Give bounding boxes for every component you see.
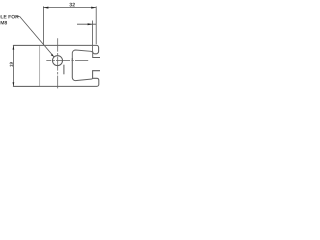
horizontal center line of hole [46,60,88,62]
arrowhead 32 right [91,7,96,9]
hook lip inner vertical x=92.7 down to off-edge line [93,52,100,58]
leader diagonal to hole [20,17,54,57]
text HOLE FOR (cut at left edge) [0,15,19,19]
extension line bottom [13,85,40,87]
arrowhead small dim right [88,23,93,25]
top edge and top-right hook [13,45,98,53]
text 19 rotated [10,62,13,67]
dim line 19 [12,45,14,86]
small dim line at y24 [77,23,96,25]
part outline: plate top edge with hook (side profile), one part [13,45,100,86]
inner left vertical with bottom corner into sloped bottom line [72,58,92,81]
text 32 [69,3,74,7]
vertical center line of hole [57,38,59,88]
arrowhead 19 top [13,45,15,49]
inner top sloped line from bend corner to lip [72,50,92,60]
left edge of plate (faint) [39,46,41,87]
bottom hook: off-edge line and lip [13,71,100,87]
extension line right of 32 [95,6,97,44]
arrowhead 19 bottom [13,82,15,86]
leader horizontal after text [16,16,20,18]
arrowhead leader at hole [51,54,54,57]
short inner vertical below hole [63,65,65,75]
extension line top (merges with plate top edge) [13,44,40,46]
text M8 [1,21,7,25]
extension line x92.6 upper [92,21,94,52]
hole circle [53,56,63,66]
arrowhead 32 left [43,7,48,9]
dim line 32 [43,7,96,9]
background [0,0,100,100]
extension line left of 32 [42,6,44,45]
